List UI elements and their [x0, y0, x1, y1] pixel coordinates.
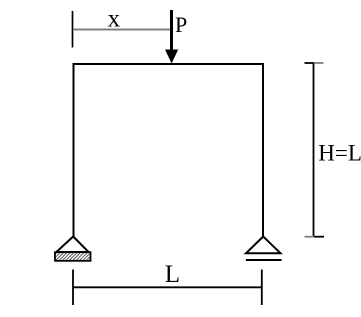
dimension H: bottom tick gray half	[305, 236, 315, 238]
dimension x: left extension tick	[72, 11, 74, 48]
frame member (two columns and top beam)	[74, 64, 264, 237]
svg-text:H=L: H=L	[318, 140, 361, 165]
svg-text:P: P	[175, 12, 187, 37]
load arrow P: head	[165, 50, 178, 64]
dimension H: top tick gray half	[314, 62, 324, 64]
pin support (left): triangle	[56, 237, 88, 253]
dimension H: bottom tick black half	[314, 236, 324, 238]
svg-text:L: L	[165, 261, 180, 288]
load arrow P: shaft	[170, 10, 173, 51]
dimension H: top tick black half	[305, 62, 315, 64]
pin support (left): hatched foundation block	[55, 252, 91, 261]
dimension H: vertical dimension line	[313, 63, 315, 237]
roller support (right): triangle	[246, 237, 281, 254]
svg-text:x: x	[108, 6, 121, 33]
dimension L: left extension tick	[72, 270, 74, 306]
dimension L: right extension tick	[261, 270, 263, 306]
roller support (right): base line	[246, 259, 282, 261]
dimension x: gray dimension line	[73, 29, 170, 31]
dimension L: dimension line	[73, 286, 262, 288]
